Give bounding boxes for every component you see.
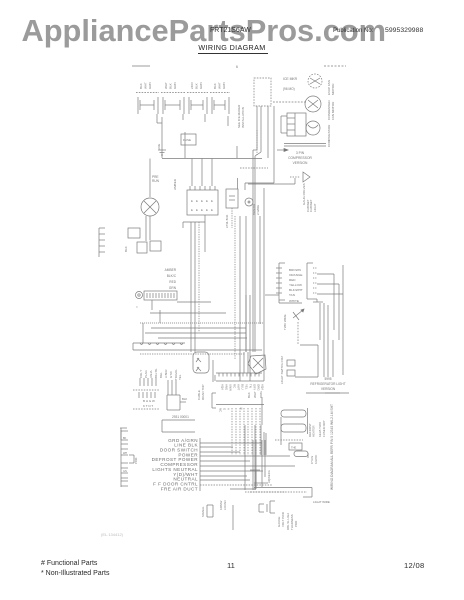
svg-text:COMPRESSOR: COMPRESSOR: [288, 156, 312, 160]
svg-text:FUSED DRY: FUSED DRY: [322, 420, 326, 437]
svg-text:BLK/WHT: BLK/WHT: [289, 288, 303, 292]
svg-text:E: E: [201, 208, 203, 212]
svg-text:AQWECA: AQWECA: [267, 470, 271, 483]
svg-text:WHT: WHT: [144, 82, 148, 89]
svg-text:COMPRESSOR: COMPRESSOR: [327, 124, 331, 147]
svg-text:BLU: BLU: [241, 384, 245, 390]
svg-text:WH: WH: [123, 452, 127, 455]
svg-text:E: E: [201, 199, 203, 203]
svg-text:=: =: [136, 305, 138, 309]
svg-text:FRE AIR DUCT: FRE AIR DUCT: [161, 486, 198, 491]
svg-text:VERSION: VERSION: [293, 161, 308, 165]
svg-text:2931 00001: 2931 00001: [172, 415, 189, 419]
svg-text:ORANGE: ORANGE: [289, 273, 302, 277]
svg-text:GRN: GRN: [169, 286, 177, 290]
svg-text:E: E: [211, 208, 213, 212]
svg-text:GRN: GRN: [222, 82, 226, 89]
svg-text:BLK: BLK: [213, 83, 217, 89]
svg-text:NC: NC: [219, 408, 223, 412]
svg-text:LIGHT: LIGHT: [313, 203, 317, 212]
svg-text:ORG: ORG: [257, 384, 261, 391]
svg-text:WHT: WHT: [253, 391, 257, 398]
svg-text:GN: GN: [123, 470, 127, 473]
svg-text:BLK: BLK: [169, 83, 173, 89]
svg-text:ORG: ORG: [259, 391, 263, 399]
svg-text:HEATER: HEATER: [312, 425, 316, 437]
svg-text:SIGNAL: SIGNAL: [201, 506, 205, 517]
svg-text:PLAG: PLAG: [144, 370, 148, 378]
svg-text:RED: RED: [169, 280, 176, 284]
svg-text:REFRIGERATOR LIGHT: REFRIGERATOR LIGHT: [310, 382, 345, 386]
svg-text:CTRL BOX: CTRL BOX: [225, 214, 229, 228]
svg-text:THE: THE: [291, 446, 296, 450]
svg-text:(EL.134412): (EL.134412): [101, 532, 124, 537]
svg-text:RUN: RUN: [152, 179, 160, 183]
svg-text:GRN: GRN: [173, 82, 177, 89]
svg-text:GTW: GTW: [169, 371, 173, 378]
svg-text:ICE MKR: ICE MKR: [283, 77, 298, 81]
svg-text:BLK/C: BLK/C: [167, 274, 177, 278]
svg-text:AQA: AQA: [221, 384, 225, 390]
svg-text:BK: BK: [123, 437, 127, 440]
svg-text:GRN: GRN: [199, 82, 203, 89]
svg-text:VERSION: VERSION: [321, 387, 336, 391]
svg-text:MOTOR: MOTOR: [331, 83, 335, 95]
svg-text:VOLT PWR: VOLT PWR: [281, 512, 285, 527]
svg-text:3 PIN: 3 PIN: [296, 151, 305, 155]
svg-text:CRL Y: CRL Y: [139, 370, 143, 378]
svg-text:240V: 240V: [190, 82, 194, 89]
svg-text:GRY: GRY: [253, 384, 257, 390]
svg-text:BLK: BLK: [139, 83, 143, 89]
svg-text:LIGHT WIRE: LIGHT WIRE: [313, 500, 330, 504]
svg-text:6: 6: [236, 65, 238, 69]
svg-text:E: E: [196, 199, 198, 203]
svg-text:PRO: PRO: [294, 520, 298, 527]
svg-text:E: E: [191, 199, 193, 203]
svg-text:BLK: BLK: [247, 392, 251, 398]
svg-text:ANG: ANG: [225, 384, 229, 391]
svg-text:AQA: AQA: [261, 384, 265, 390]
svg-text:ROAD TOP: ROAD TOP: [201, 384, 205, 400]
svg-text:YEL: YEL: [245, 384, 249, 390]
svg-text:BLK: BLK: [195, 83, 199, 89]
svg-text:E: E: [206, 199, 208, 203]
svg-text:RED: RED: [289, 278, 296, 282]
svg-text:E: E: [196, 208, 198, 212]
svg-text:UNW: UNW: [229, 384, 233, 391]
svg-text:AMBER: AMBER: [165, 268, 177, 272]
svg-text:E: E: [191, 208, 193, 212]
svg-text:WHT: WHT: [218, 82, 222, 89]
svg-text:BLK: BLK: [182, 397, 187, 401]
svg-text:AWT: AWT: [237, 384, 241, 391]
svg-text:BLK: BLK: [124, 246, 128, 252]
svg-text:AMBER: AMBER: [173, 178, 177, 190]
svg-text:KILPIC: KILPIC: [314, 455, 318, 464]
svg-text:A: A: [227, 408, 231, 410]
svg-text:RC: RC: [233, 384, 237, 388]
svg-text:K T N T: K T N T: [143, 404, 153, 408]
svg-text:M: M: [240, 407, 243, 411]
svg-text:5995: 5995: [324, 377, 331, 381]
svg-text:E: E: [211, 199, 213, 203]
svg-text:BKJ BL: BKJ BL: [154, 368, 158, 378]
svg-text:GRN: GRN: [148, 82, 152, 89]
svg-text:A BKR: A BKR: [164, 369, 168, 378]
svg-text:INSTALLATION: INSTALLATION: [241, 107, 245, 128]
svg-text:FUSE: FUSE: [183, 138, 191, 142]
svg-text:WHT: WHT: [164, 82, 168, 89]
svg-text:TAN: TAN: [289, 293, 295, 297]
svg-text:FAN MOTOR: FAN MOTOR: [331, 101, 335, 120]
svg-text:TN: TN: [249, 384, 253, 388]
svg-text:YEL: YEL: [178, 374, 182, 380]
svg-text:TWO WIRE: TWO WIRE: [283, 314, 287, 330]
svg-text:B H G W: B H G W: [143, 399, 155, 403]
svg-text:PINK: PINK: [134, 457, 138, 464]
svg-text:CABINET: CABINET: [306, 199, 310, 212]
svg-text:2-WIRE: 2-WIRE: [256, 205, 260, 215]
svg-text:(96 MO): (96 MO): [283, 87, 295, 91]
svg-text:LIGHT SWITCH FRZ: LIGHT SWITCH FRZ: [280, 356, 284, 384]
svg-text:BGL: BGL: [159, 372, 163, 378]
svg-text:LINE: LINE: [157, 144, 161, 150]
svg-text:E: E: [206, 208, 208, 212]
svg-text:WIRING DIAGRAM ALL REFR P/N 5: WIRING DIAGRAM ALL REFR P/N 5 12345 W6-2…: [330, 404, 334, 490]
svg-text:UNJA: UNJA: [149, 370, 153, 378]
svg-text:LOVAD: LOVAD: [223, 500, 227, 510]
svg-text:BROWN: BROWN: [289, 268, 301, 272]
svg-text:YELLOW: YELLOW: [289, 283, 302, 287]
svg-text:WHITE: WHITE: [289, 299, 299, 303]
